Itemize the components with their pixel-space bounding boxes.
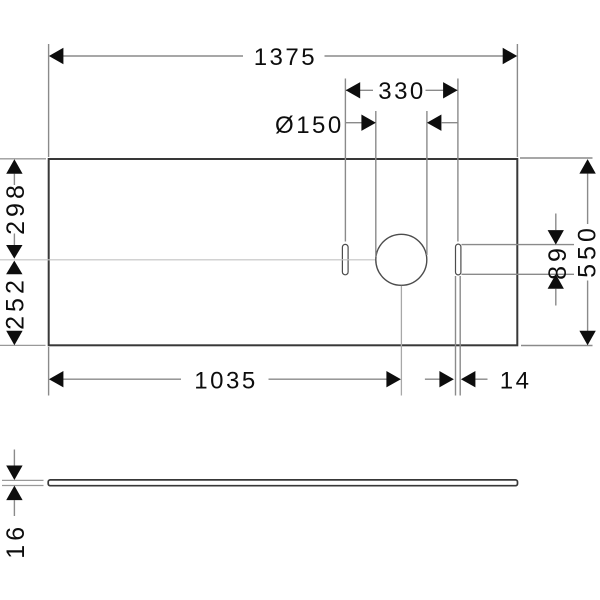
svg-text:Ø150: Ø150 bbox=[275, 112, 344, 139]
svg-text:89: 89 bbox=[544, 244, 572, 280]
extension line 89 top bbox=[462, 244, 575, 246]
svg-text:298: 298 bbox=[2, 181, 30, 235]
dimension 14 bbox=[425, 367, 532, 394]
extension line 89 bottom bbox=[462, 273, 575, 275]
svg-text:14: 14 bbox=[500, 367, 532, 394]
svg-text:252: 252 bbox=[2, 276, 30, 330]
extension line d150 left tangent bbox=[375, 111, 377, 257]
extension line 330 left bbox=[344, 79, 346, 242]
extension line 330 right bbox=[457, 79, 459, 242]
top view panel outline bbox=[49, 159, 518, 345]
left faucet slot bbox=[342, 244, 348, 274]
svg-text:550: 550 bbox=[573, 224, 600, 278]
dimension 1035 bbox=[49, 367, 401, 394]
dimension 16 bbox=[2, 450, 30, 559]
dimension 1375 bbox=[49, 44, 517, 71]
extension line slab top left bbox=[2, 479, 44, 481]
svg-text:1035: 1035 bbox=[194, 367, 257, 394]
extension line bottom edge left bbox=[0, 344, 46, 346]
side view slab bbox=[48, 480, 517, 486]
svg-text:16: 16 bbox=[2, 523, 30, 559]
dimension 252 bbox=[2, 261, 30, 346]
extension line bottom edge right bbox=[521, 345, 593, 347]
extension line slab bottom left bbox=[2, 485, 44, 487]
extension line top edge right bbox=[520, 157, 593, 159]
svg-text:1375: 1375 bbox=[254, 44, 317, 71]
right faucet slot bbox=[456, 244, 461, 275]
dimension d150 bbox=[275, 112, 458, 139]
dimension 89 bbox=[544, 214, 572, 306]
svg-text:330: 330 bbox=[378, 78, 426, 105]
extension line 14 right bbox=[459, 276, 461, 396]
extension line d150 right tangent bbox=[426, 111, 428, 255]
basin hole circle bbox=[376, 234, 427, 285]
dimension 298 bbox=[2, 159, 30, 258]
extension line 14 left bbox=[455, 276, 457, 396]
centerline horizontal through fixture holes bbox=[0, 259, 376, 261]
extension line 1375 right bbox=[516, 44, 518, 157]
dimension 330 bbox=[346, 78, 458, 105]
extension line 1035 left below panel bbox=[48, 347, 50, 396]
extension line top edge left bbox=[0, 158, 46, 160]
extension line 1375 left bbox=[48, 44, 50, 157]
dimension 550 bbox=[573, 159, 600, 345]
centerline vertical below basin hole bbox=[400, 286, 402, 396]
